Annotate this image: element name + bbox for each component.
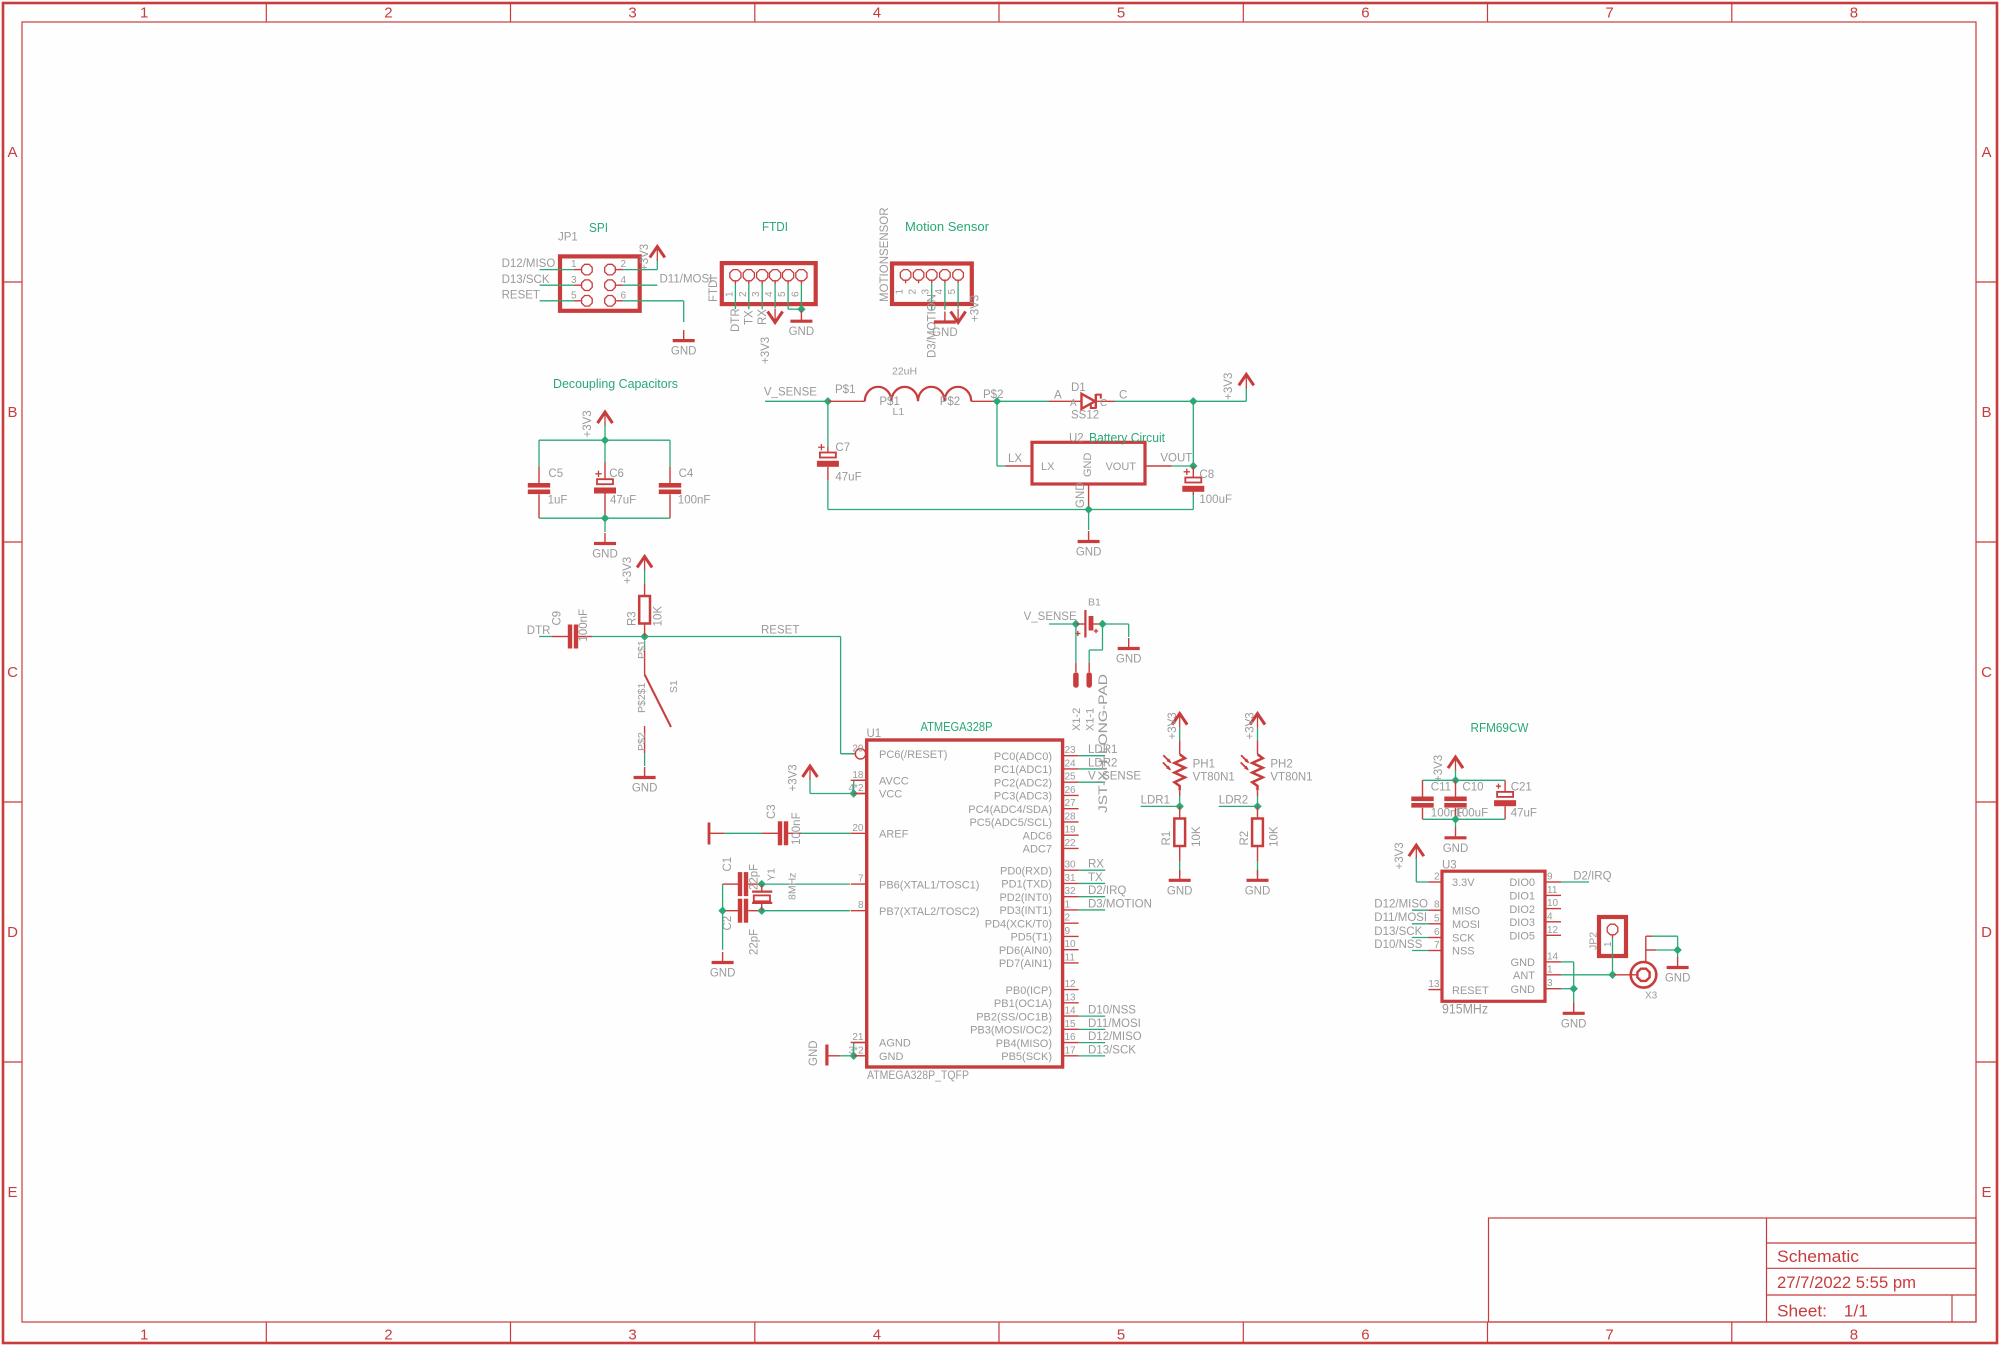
svg-text:AVCC: AVCC: [879, 776, 909, 788]
wire C9 to junction: [592, 636, 644, 638]
svg-text:5: 5: [777, 291, 788, 297]
wire MOTIONSENSOR pin5 to +3V3: [957, 283, 959, 308]
junction U3 GND: [1570, 985, 1578, 993]
svg-text:32: 32: [1065, 886, 1077, 897]
wire net LDR2 at U1 pin 24: [1079, 768, 1106, 770]
power +3V3 down arrow at FTDI: [768, 312, 783, 323]
junction RESET node: [640, 632, 648, 640]
svg-text:8: 8: [1850, 1327, 1858, 1344]
IC U2 battery boost converter: [1032, 442, 1145, 484]
junction L1/P$2: [993, 397, 1001, 405]
svg-text:6: 6: [790, 291, 801, 297]
svg-text:D1: D1: [1071, 382, 1086, 394]
svg-text:12: 12: [1065, 979, 1077, 990]
svg-text:3: 3: [628, 1327, 636, 1344]
svg-text:10: 10: [1547, 898, 1559, 909]
svg-text:3: 3: [628, 5, 636, 22]
wire net D12/MISO at U1 pin 16: [1079, 1042, 1106, 1044]
svg-text:24: 24: [1065, 758, 1077, 769]
ground GND at MOTIONSENSOR: [944, 312, 946, 323]
svg-text:1/1: 1/1: [1844, 1303, 1868, 1321]
svg-text:4: 4: [621, 275, 627, 286]
svg-text:MOSI: MOSI: [1452, 919, 1480, 931]
svg-text:2: 2: [908, 289, 919, 295]
wire JP1 pin2 to +3V3: [623, 269, 657, 271]
svg-text:P$2$1: P$2$1: [636, 682, 648, 713]
power +3V3 arrow at PH1: [1172, 714, 1187, 725]
svg-text:D12/MISO: D12/MISO: [1374, 899, 1428, 911]
wire U3 pin14 GND: [1561, 961, 1574, 963]
wire FTDI pin3 RX: [761, 284, 763, 309]
junction ANT: [1608, 971, 1616, 979]
wire +3V3 to PH1: [1179, 728, 1181, 741]
svg-text:GND: GND: [1511, 957, 1536, 969]
svg-text:+3V3: +3V3: [1433, 755, 1445, 782]
svg-text:PD0(RXD): PD0(RXD): [1000, 865, 1052, 877]
wire VCC to AVCC: [853, 780, 855, 793]
pin U2 VOUT: [1145, 465, 1172, 467]
U1 pin 18 AVCC: [851, 779, 867, 781]
svg-text:LDR1: LDR1: [1141, 795, 1170, 807]
svg-text:GND: GND: [1075, 482, 1087, 508]
svg-text:19: 19: [1065, 825, 1077, 836]
pin U2 LX: [1005, 465, 1032, 467]
svg-text:VT80N1: VT80N1: [1270, 772, 1312, 784]
svg-text:3: 3: [751, 291, 762, 297]
svg-text:4: 4: [764, 291, 775, 297]
wire shell to GND: [1677, 936, 1679, 950]
svg-text:PC4(ADC4/SDA): PC4(ADC4/SDA): [968, 804, 1052, 816]
svg-text:+3V3: +3V3: [788, 764, 800, 791]
svg-text:1: 1: [571, 259, 577, 270]
svg-text:GND: GND: [879, 1051, 904, 1063]
svg-text:SPI: SPI: [589, 221, 608, 235]
wire net V_SENSE at U1 pin 25: [1079, 781, 1106, 783]
junction V_SENSE / C7: [824, 397, 832, 405]
resistor R1 10K: [1179, 806, 1181, 818]
svg-text:D2/IRQ: D2/IRQ: [1573, 870, 1611, 882]
U1 pin 31 PD1(TXD): [1063, 882, 1079, 884]
pad X1-2: [1075, 663, 1077, 685]
wire B1 to GND: [1103, 623, 1129, 625]
junction +3V3/C8: [1189, 397, 1197, 405]
svg-text:P$2: P$2: [940, 396, 960, 408]
wire U3 DIO0 D2/IRQ: [1561, 881, 1589, 883]
U1 pin 7 PB6(XTAL1/TOSC1): [851, 883, 867, 885]
svg-text:PD7(AIN1): PD7(AIN1): [999, 958, 1052, 970]
svg-text:4: 4: [873, 5, 881, 22]
power +3V3 arrow at decoupling rail: [598, 412, 613, 423]
svg-text:SS12: SS12: [1071, 410, 1099, 422]
svg-text:MOTIONSENSOR: MOTIONSENSOR: [879, 207, 891, 302]
svg-text:GND: GND: [789, 326, 815, 338]
ground GND at FTDI: [800, 311, 802, 322]
svg-text:DIO0: DIO0: [1509, 877, 1535, 889]
svg-text:10: 10: [1065, 939, 1077, 950]
wire MOTIONSENSOR pin4 to GND: [944, 283, 946, 310]
svg-text:C1: C1: [722, 857, 734, 872]
diode D1 SS12: [1049, 394, 1115, 409]
U1 pin 23 PC0(ADC0): [1063, 755, 1079, 757]
ground GND rotated at U1 GND pins: [808, 1040, 840, 1066]
U1 pin 26 PC3(ADC3): [1063, 794, 1079, 796]
wire decoupling top rail: [539, 439, 670, 441]
svg-text:S1: S1: [668, 680, 680, 693]
svg-text:1: 1: [140, 1327, 148, 1344]
svg-text:100uF: 100uF: [1456, 808, 1489, 820]
wire net D10/NSS at U1 pin 14: [1079, 1015, 1106, 1017]
svg-text:Battery Circuit: Battery Circuit: [1089, 431, 1166, 445]
svg-text:DIO1: DIO1: [1509, 891, 1535, 903]
wire +3V3 to PH2: [1257, 728, 1259, 741]
svg-text:ATMEGA328P_TQFP: ATMEGA328P_TQFP: [867, 1070, 969, 1082]
svg-text:D13/SCK: D13/SCK: [1088, 1044, 1136, 1056]
svg-text:V_SENSE: V_SENSE: [1024, 611, 1077, 623]
svg-text:16: 16: [1065, 1032, 1077, 1043]
svg-text:2: 2: [621, 259, 627, 270]
svg-text:VOUT: VOUT: [1160, 453, 1192, 465]
svg-text:14: 14: [1065, 1006, 1077, 1017]
capacitor C8 polarized: [1192, 466, 1194, 478]
wire net D11/MOSI at U1 pin 15: [1079, 1028, 1106, 1030]
svg-text:C: C: [1981, 664, 1992, 681]
svg-text:+3V3: +3V3: [1245, 712, 1257, 739]
svg-text:GND: GND: [1116, 654, 1142, 666]
svg-text:28: 28: [1065, 811, 1077, 822]
svg-text:100uF: 100uF: [1199, 494, 1232, 506]
svg-text:PB2(SS/OC1B): PB2(SS/OC1B): [976, 1011, 1052, 1023]
svg-text:P$1: P$1: [835, 384, 855, 396]
ground GND at R2: [1257, 870, 1259, 881]
svg-text:PH2: PH2: [1270, 759, 1292, 771]
U1 pin 17 PB5(SCK): [1063, 1055, 1079, 1057]
U1 pin 32 PD2(INT0): [1063, 896, 1079, 898]
junction LDR2: [1253, 802, 1261, 810]
ground GND at crystal: [722, 952, 724, 963]
capacitor C11: [1422, 780, 1424, 796]
wire AGND link: [853, 1043, 855, 1056]
svg-text:7: 7: [1605, 5, 1613, 22]
wire net LDR1 at U1 pin 23: [1079, 755, 1106, 757]
plus mark C6: [595, 473, 601, 475]
capacitor C21 polarized: [1504, 780, 1506, 792]
svg-text:FTDI: FTDI: [762, 220, 788, 234]
svg-text:PB4(MISO): PB4(MISO): [996, 1038, 1052, 1050]
svg-text:ADC6: ADC6: [1023, 830, 1052, 842]
svg-text:D11/MOSI: D11/MOSI: [1374, 912, 1427, 924]
wire D13/SCK to U3 pin 6: [1412, 937, 1429, 939]
svg-text:+3V3: +3V3: [639, 244, 651, 271]
wire diode to +3V3 rail: [1115, 400, 1246, 402]
svg-text:VOUT: VOUT: [1105, 461, 1136, 473]
svg-text:PC6(/RESET): PC6(/RESET): [879, 749, 947, 761]
wire C5 top: [538, 440, 540, 467]
svg-text:PC1(ADC1): PC1(ADC1): [994, 764, 1052, 776]
U1 pin 19 ADC6: [1063, 834, 1079, 836]
svg-text:PB6(XTAL1/TOSC1): PB6(XTAL1/TOSC1): [879, 879, 979, 891]
svg-text:18: 18: [852, 770, 864, 781]
U1 pin 9 PD5(T1): [1063, 935, 1079, 937]
svg-text:C4: C4: [679, 468, 694, 480]
svg-text:PC2(ADC2): PC2(ADC2): [994, 777, 1052, 789]
svg-text:10K: 10K: [1191, 826, 1203, 847]
svg-text:Schematic: Schematic: [1777, 1248, 1859, 1266]
svg-text:9: 9: [1065, 926, 1071, 937]
svg-text:GND: GND: [592, 549, 618, 561]
svg-text:27/7/2022 5:55 pm: 27/7/2022 5:55 pm: [1777, 1274, 1916, 1292]
svg-text:B: B: [1981, 404, 1991, 421]
svg-text:20: 20: [852, 823, 864, 834]
plus mark B1 right: [1094, 630, 1098, 632]
svg-text:100nF: 100nF: [791, 812, 803, 845]
capacitor C3 at AREF: [709, 821, 851, 845]
U3 pin 5 MOSI: [1428, 923, 1442, 925]
wire D13/SCK to JP1 pin3: [540, 284, 574, 286]
svg-text:Motion Sensor: Motion Sensor: [905, 220, 989, 234]
U3 pin 3 GND: [1545, 988, 1561, 990]
svg-text:+3V3: +3V3: [582, 410, 594, 437]
svg-text:13: 13: [1065, 992, 1077, 1003]
U1 pin 28 PC5(ADC5/SCL): [1063, 821, 1079, 823]
wire net D2/IRQ at U1 pin 32: [1079, 896, 1106, 898]
svg-text:2: 2: [738, 291, 749, 297]
U1 pin 15 PB3(MOSI/OC2): [1063, 1028, 1079, 1030]
U3 pin 13 RESET: [1428, 989, 1442, 991]
plus mark B1 left: [1075, 633, 1080, 635]
svg-text:LDR2: LDR2: [1219, 795, 1248, 807]
svg-text:D3/MOTION: D3/MOTION: [1088, 898, 1152, 910]
svg-text:GND: GND: [1167, 885, 1193, 897]
power +3V3 down arrow at MOTIONSENSOR: [951, 312, 966, 323]
svg-text:JP1: JP1: [558, 232, 578, 244]
svg-text:R3: R3: [627, 611, 639, 626]
wire V_SENSE: [765, 400, 828, 402]
svg-text:PC3(ADC3): PC3(ADC3): [994, 791, 1052, 803]
wire PH1 to LDR1 node: [1179, 796, 1181, 806]
svg-text:D13/SCK: D13/SCK: [1374, 926, 1422, 938]
ground GND at RFM caps: [1455, 827, 1457, 838]
svg-text:D12/MISO: D12/MISO: [502, 258, 556, 270]
ground GND at R1: [1179, 870, 1181, 881]
svg-text:1: 1: [140, 5, 148, 22]
svg-text:23: 23: [1065, 745, 1077, 756]
svg-text:12: 12: [1547, 925, 1559, 936]
svg-text:U1: U1: [867, 728, 882, 740]
svg-text:B: B: [7, 404, 17, 421]
U1 pin 12 PB0(ICP): [1063, 989, 1079, 991]
U3 pin 14 GND: [1545, 961, 1561, 963]
svg-text:X1-2: X1-2: [1071, 708, 1083, 731]
wire to GND: [1455, 819, 1457, 828]
ground GND at X3: [1677, 957, 1679, 968]
wire C2 to GND: [722, 911, 724, 950]
svg-text:VCC: VCC: [879, 789, 902, 801]
svg-text:C7: C7: [835, 442, 850, 454]
power +3V3 arrow at U3: [1409, 845, 1424, 856]
svg-text:5: 5: [1117, 5, 1125, 22]
IC U1 ATMEGA328P: [867, 740, 1063, 1067]
svg-text:PD5(T1): PD5(T1): [1010, 932, 1052, 944]
svg-text:+3V3: +3V3: [1167, 712, 1179, 739]
svg-text:PC0(ADC0): PC0(ADC0): [994, 751, 1052, 763]
U3 pin 7 NSS: [1428, 950, 1442, 952]
wire S1 to GND: [644, 753, 646, 766]
svg-text:17: 17: [1065, 1045, 1077, 1056]
svg-text:3: 3: [571, 275, 577, 286]
svg-text:PD6(AIN0): PD6(AIN0): [999, 945, 1052, 957]
svg-text:GND: GND: [671, 346, 697, 358]
svg-text:3.3V: 3.3V: [1452, 877, 1475, 889]
svg-text:D11/MOSI: D11/MOSI: [660, 274, 713, 286]
connector MOTIONSENSOR: [892, 264, 972, 305]
svg-text:PB5(SCK): PB5(SCK): [1001, 1051, 1052, 1063]
svg-text:2: 2: [384, 5, 392, 22]
svg-text:DTR: DTR: [527, 625, 551, 637]
U1 pin 22 ADC7: [1063, 847, 1079, 849]
svg-text:GND: GND: [1561, 1018, 1587, 1030]
svg-text:VT80N1: VT80N1: [1193, 772, 1235, 784]
wire XTAL2 to U1 pin8: [762, 910, 850, 912]
junction FTDI GND: [797, 305, 805, 313]
svg-text:MISO: MISO: [1452, 905, 1481, 917]
svg-text:A: A: [1981, 144, 1991, 161]
power +3V3 arrow at JP1: [650, 247, 665, 258]
svg-text:ADC7: ADC7: [1023, 844, 1052, 856]
svg-text:D13/SCK: D13/SCK: [502, 274, 550, 286]
wire PH2 to LDR2 node: [1257, 796, 1259, 806]
wire C8 riser: [1192, 401, 1194, 466]
svg-text:7: 7: [858, 874, 864, 885]
wire GND to U1: [840, 1055, 853, 1057]
U1 pin 1 PD3(INT1): [1063, 909, 1079, 911]
wire +3V3 to cap rail: [1455, 770, 1457, 780]
svg-text:GND: GND: [808, 1040, 820, 1066]
connector JP2: [1599, 917, 1626, 956]
U3 pin 6 SCK: [1428, 937, 1442, 939]
svg-text:GND: GND: [932, 327, 958, 339]
plus mark C7: [818, 446, 824, 448]
svg-text:8MHz: 8MHz: [787, 873, 799, 900]
U1 pin 30 PD0(RXD): [1063, 869, 1079, 871]
svg-text:PC5(ADC5/SCL): PC5(ADC5/SCL): [969, 817, 1052, 829]
inductor L1: [828, 387, 997, 402]
antenna connector X3: [1614, 962, 1656, 988]
wire up to +3V3 arrow: [1245, 387, 1247, 401]
svg-text:47uF: 47uF: [1511, 808, 1537, 820]
svg-text:22: 22: [1065, 838, 1077, 849]
wire RFM cap bottom rail: [1423, 818, 1506, 820]
wire net TX at U1 pin 31: [1079, 882, 1106, 884]
svg-text:2: 2: [384, 1327, 392, 1344]
photoresistor PH2 VT80N1: [1241, 740, 1263, 796]
svg-text:D: D: [7, 924, 18, 941]
U3 pin 9 DIO0: [1545, 881, 1561, 883]
wire R2 to GND: [1257, 861, 1259, 876]
connector FTDI: [722, 263, 816, 304]
svg-text:C: C: [1119, 390, 1127, 402]
wire X1-2: [1075, 624, 1077, 663]
wire down to GND: [1677, 950, 1679, 958]
svg-text:6: 6: [1361, 5, 1369, 22]
wire RESET: [645, 636, 841, 638]
wire +3V3 to R3: [644, 570, 646, 585]
pin R3 bottom: [644, 624, 646, 637]
svg-text:7: 7: [1434, 940, 1440, 951]
wire net D3/MOTION at U1 pin 1: [1079, 909, 1106, 911]
photoresistor PH1 VT80N1: [1163, 740, 1185, 796]
svg-text:C11: C11: [1431, 782, 1451, 794]
wire D10/NSS to U3 pin 7: [1412, 950, 1429, 952]
U1 pin 13 PB1(OC1A): [1063, 1002, 1079, 1004]
wire FTDI pin1 DTR: [734, 284, 736, 309]
junction U1 GND: [850, 1052, 858, 1060]
power +3V3 arrow at U1 VCC: [803, 766, 818, 777]
svg-text:P$2: P$2: [636, 732, 648, 751]
U1 pin 3*2 GND: [851, 1055, 867, 1057]
wire RFM cap top rail: [1423, 779, 1506, 781]
svg-text:9: 9: [1547, 872, 1553, 883]
junction bottom rail GND: [1084, 505, 1092, 513]
svg-text:PB3(MOSI/OC2): PB3(MOSI/OC2): [970, 1025, 1052, 1037]
capacitor C5: [538, 467, 540, 483]
svg-text:29: 29: [852, 743, 864, 754]
svg-text:D10/NSS: D10/NSS: [1374, 939, 1422, 951]
svg-text:D11/MOSI: D11/MOSI: [1088, 1018, 1141, 1030]
wire to GND: [1573, 989, 1575, 1004]
junction RFM cap bottom: [1451, 815, 1459, 823]
svg-text:C: C: [1100, 398, 1107, 409]
U3 pin 12 DIO5: [1545, 934, 1561, 936]
U3 pin 11 DIO1: [1545, 894, 1561, 896]
wire to GND: [1088, 510, 1090, 531]
svg-text:PD3(INT1): PD3(INT1): [999, 905, 1052, 917]
wire LX riser: [996, 401, 998, 466]
junction decoupling bottom: [601, 514, 609, 522]
U1 pin 2 PD4(XCK/T0): [1063, 922, 1079, 924]
svg-text:25: 25: [1065, 772, 1077, 783]
ground GND at B1: [1128, 638, 1130, 649]
wire LDR1 label: [1141, 805, 1180, 807]
svg-text:C8: C8: [1199, 469, 1214, 481]
svg-text:26: 26: [1065, 785, 1077, 796]
svg-text:RESET: RESET: [1452, 985, 1489, 997]
svg-text:+3V3: +3V3: [970, 295, 982, 322]
switch S1: [645, 641, 671, 753]
svg-text:JST-XH-LONG-PAD: JST-XH-LONG-PAD: [1096, 674, 1110, 813]
svg-text:2: 2: [1065, 913, 1071, 924]
svg-text:100nF: 100nF: [578, 609, 590, 642]
svg-text:2: 2: [1434, 872, 1440, 883]
wire battery circuit bottom rail: [828, 509, 1193, 511]
svg-text:PD2(INT0): PD2(INT0): [999, 892, 1052, 904]
U1 pin 11 PD7(AIN1): [1063, 962, 1079, 964]
svg-text:11: 11: [1547, 885, 1558, 896]
svg-text:+3V3: +3V3: [760, 337, 772, 364]
svg-text:15: 15: [1065, 1019, 1077, 1030]
capacitor C1: [723, 883, 738, 885]
U1 pin 16 PB4(MISO): [1063, 1042, 1079, 1044]
wire X1-1: [1102, 624, 1104, 650]
svg-text:GND: GND: [1511, 984, 1536, 996]
svg-text:+3V3: +3V3: [622, 557, 634, 584]
svg-text:DTR: DTR: [730, 308, 742, 332]
junction XTAL2: [758, 907, 766, 915]
svg-text:RESET: RESET: [502, 289, 540, 301]
svg-text:X1-1: X1-1: [1084, 708, 1096, 731]
U3 pin 1 ANT: [1545, 974, 1561, 976]
svg-text:C6: C6: [609, 468, 624, 480]
svg-text:27: 27: [1065, 798, 1077, 809]
